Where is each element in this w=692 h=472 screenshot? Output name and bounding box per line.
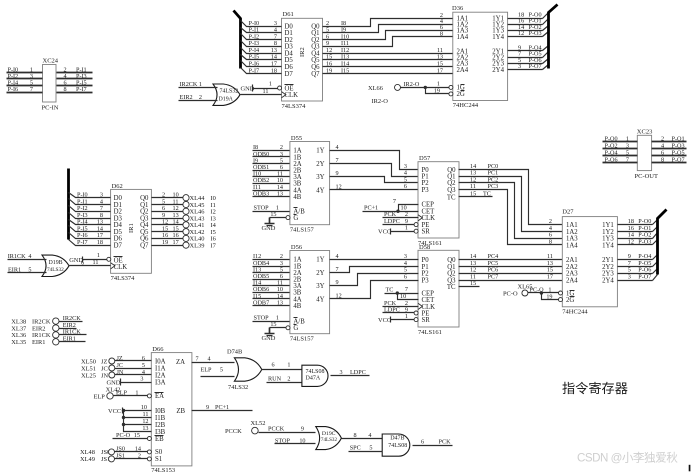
wire D36 output to P-O4 bbox=[508, 44, 549, 51]
wire IR1CK to D19B pin 4 bbox=[8, 253, 47, 260]
svg-text:74LS161: 74LS161 bbox=[418, 329, 442, 336]
svg-text:1Y: 1Y bbox=[316, 257, 324, 264]
svg-text:5: 5 bbox=[142, 362, 145, 369]
wire I12 to D56 pin 2 bbox=[253, 253, 290, 260]
wire D27 output to P-O3 (right) bbox=[618, 238, 658, 245]
svg-text:D57: D57 bbox=[419, 155, 431, 162]
terminal XL50 net JZ to D66 bbox=[81, 355, 152, 366]
svg-text:PC-O: PC-O bbox=[530, 286, 545, 293]
wire D56 3Y to D58 P2 bbox=[330, 267, 419, 287]
svg-text:PCCK: PCCK bbox=[268, 426, 285, 433]
svg-text:9: 9 bbox=[206, 404, 209, 411]
svg-text:7: 7 bbox=[196, 355, 199, 362]
svg-text:PC7: PC7 bbox=[488, 274, 499, 281]
wire STOP to D56 A/B pin 1 bbox=[253, 315, 290, 322]
svg-text:GND: GND bbox=[262, 335, 276, 342]
svg-text:74LS374: 74LS374 bbox=[111, 275, 136, 282]
terminal XL66 (IR2-O) bbox=[368, 84, 401, 105]
terminal XL46 net I2 from D62 Q2 bbox=[152, 205, 216, 216]
wire ELP to D74B pin 5 bbox=[201, 366, 235, 376]
wire LDPC to D58 PE pin 9 bbox=[383, 306, 419, 315]
wire XC23 pin 4 to P-O3 bbox=[652, 142, 687, 149]
svg-text:1: 1 bbox=[405, 225, 408, 232]
svg-text:RUN: RUN bbox=[268, 376, 282, 383]
wire P-I4 to D62 pin 13 bbox=[69, 219, 111, 226]
svg-text:10: 10 bbox=[299, 437, 305, 444]
svg-text:7: 7 bbox=[626, 157, 629, 164]
wire D61 Q3 (I11) to D36 pin 8 bbox=[323, 30, 453, 47]
wire D27 output to P-O6 (right) bbox=[618, 267, 658, 274]
svg-text:CSDN @小李独爱秋: CSDN @小李独爱秋 bbox=[577, 451, 678, 465]
svg-text:13: 13 bbox=[277, 190, 283, 197]
wire D27 output to P-O0 (right) bbox=[618, 218, 658, 225]
wire D58 TC pin 15 bbox=[459, 280, 480, 287]
svg-text:CLK: CLK bbox=[285, 92, 299, 99]
svg-text:4: 4 bbox=[661, 142, 664, 149]
svg-text:ODB7: ODB7 bbox=[253, 299, 269, 306]
or-gate D19A 74LS32 bbox=[213, 84, 240, 105]
svg-text:D66: D66 bbox=[152, 346, 164, 353]
wire D55 1Y to D57 P0 bbox=[330, 144, 419, 170]
svg-text:11: 11 bbox=[143, 411, 149, 418]
wire D47A output pin 3 net LDPC bbox=[331, 369, 370, 376]
wire D58 Q3 net PC7 to D27 pin 17 bbox=[459, 274, 563, 281]
svg-text:3: 3 bbox=[628, 274, 631, 281]
svg-text:P-O7: P-O7 bbox=[672, 157, 685, 164]
svg-text:JS0: JS0 bbox=[116, 445, 125, 452]
wire XC24 pin 8 to P-I7 bbox=[57, 86, 93, 93]
svg-text:7: 7 bbox=[336, 266, 339, 273]
svg-text:JZ: JZ bbox=[117, 355, 123, 362]
terminal XL38 net IR2CK bbox=[11, 315, 82, 326]
svg-text:EIR2: EIR2 bbox=[180, 94, 193, 101]
svg-text:7: 7 bbox=[393, 198, 396, 205]
svg-text:5: 5 bbox=[28, 266, 31, 273]
svg-text:1: 1 bbox=[97, 252, 100, 259]
svg-text:PC-O: PC-O bbox=[503, 291, 518, 298]
svg-text:74LS374: 74LS374 bbox=[282, 103, 307, 110]
svg-text:P-O3: P-O3 bbox=[638, 238, 651, 245]
wire XC23 pin 2 to P-O1 bbox=[652, 135, 687, 142]
svg-text:P3: P3 bbox=[422, 187, 430, 194]
power port VCC to D66 I0B..I3B bbox=[108, 404, 152, 432]
svg-text:4: 4 bbox=[336, 253, 339, 260]
svg-text:4Y: 4Y bbox=[316, 296, 324, 303]
wire D36 output to P-O7 bbox=[508, 63, 549, 70]
svg-text:P-O6: P-O6 bbox=[605, 157, 618, 164]
svg-text:LDPC: LDPC bbox=[384, 218, 400, 225]
terminal XL25 net JN to D66 bbox=[81, 369, 152, 380]
svg-text:1: 1 bbox=[437, 81, 440, 88]
svg-text:EA: EA bbox=[155, 393, 164, 400]
wire I13 to D56 pin 5 bbox=[253, 266, 290, 273]
power port GND at D66 I3A pin 3 bbox=[107, 375, 152, 386]
svg-text:Q7: Q7 bbox=[140, 242, 149, 249]
svg-text:14: 14 bbox=[135, 445, 141, 452]
svg-text:8: 8 bbox=[354, 432, 357, 439]
svg-text:12: 12 bbox=[336, 183, 342, 190]
IC D36 74HC244 bbox=[452, 5, 508, 109]
wire ODB0 to D55 pin 3 bbox=[253, 151, 290, 158]
wire IR2-O to D36 1G/2G pins 1,19 bbox=[401, 81, 453, 96]
svg-text:11: 11 bbox=[263, 88, 269, 95]
svg-text:D62: D62 bbox=[112, 183, 123, 190]
caption 指令寄存器 bbox=[562, 380, 628, 396]
svg-text:I7: I7 bbox=[211, 242, 217, 249]
svg-text:P-O7: P-O7 bbox=[638, 274, 651, 281]
svg-text:19: 19 bbox=[434, 88, 440, 95]
svg-text:9: 9 bbox=[336, 170, 339, 177]
wire D56 2Y to D58 P1 bbox=[330, 260, 419, 273]
svg-text:VCC: VCC bbox=[378, 317, 391, 324]
svg-text:IR2CK: IR2CK bbox=[180, 81, 198, 88]
svg-text:18: 18 bbox=[97, 239, 103, 246]
svg-text:8: 8 bbox=[549, 238, 552, 245]
svg-text:XL52: XL52 bbox=[251, 420, 266, 427]
terminal XL40 net I6 from D62 Q6 bbox=[152, 232, 216, 243]
svg-text:8: 8 bbox=[661, 157, 664, 164]
wire XC24 pin 4 to P-I3 bbox=[57, 73, 93, 80]
svg-text:指令寄存器: 指令寄存器 bbox=[562, 380, 628, 396]
wire XC24 pin 2 to P-I1 bbox=[57, 66, 93, 73]
svg-text:1Y4: 1Y4 bbox=[602, 242, 614, 249]
svg-text:2Y4: 2Y4 bbox=[602, 277, 614, 284]
svg-text:74LS32: 74LS32 bbox=[228, 384, 248, 391]
svg-text:2A4: 2A4 bbox=[566, 277, 578, 284]
wire D27 output to P-O5 (right) bbox=[618, 260, 658, 267]
power port VCC at D58 SR pin 1 bbox=[378, 313, 418, 324]
IC D57 74LS161 bbox=[418, 155, 459, 247]
terminal XL36 net IR1CK bbox=[11, 329, 86, 340]
svg-text:1: 1 bbox=[626, 135, 629, 142]
wire PC-O to D66 EB pin 15 bbox=[113, 432, 152, 441]
svg-text:PC+1: PC+1 bbox=[364, 205, 378, 212]
svg-text:74HC244: 74HC244 bbox=[453, 102, 479, 109]
wire P-I6 to D61 pin 17 bbox=[241, 60, 282, 67]
bus entry to D62 inputs bbox=[67, 169, 70, 240]
svg-text:P-O2: P-O2 bbox=[605, 142, 618, 149]
wire P-I4 to D61 pin 13 bbox=[241, 47, 282, 54]
svg-text:3: 3 bbox=[140, 375, 143, 382]
wire ODB5 to D56 pin 6 bbox=[253, 273, 290, 280]
power port GND at D61 OE pin 1 bbox=[241, 81, 282, 93]
IC D66 74LS153 bbox=[151, 346, 192, 472]
svg-text:15: 15 bbox=[270, 211, 276, 218]
IC D56 74LS157 bbox=[290, 244, 330, 343]
svg-text:D61: D61 bbox=[283, 11, 294, 18]
svg-text:STOP: STOP bbox=[275, 437, 291, 444]
wire P-I2 to D61 pin 7 bbox=[241, 33, 282, 40]
wire P-O6 to XC23 pin 7 bbox=[603, 157, 638, 164]
corner mark bbox=[689, 465, 691, 472]
svg-text:P-I6: P-I6 bbox=[8, 86, 19, 93]
svg-text:G: G bbox=[293, 325, 298, 332]
wire D58 Q2 net PC6 to D27 pin 15 bbox=[459, 267, 563, 274]
wire D19C output pin 8 to D47B pin 4 bbox=[342, 432, 383, 439]
wire I14 to D56 pin 11 bbox=[253, 280, 290, 287]
svg-text:I3B: I3B bbox=[155, 429, 166, 436]
svg-text:6: 6 bbox=[421, 438, 424, 445]
svg-text:74LS32: 74LS32 bbox=[220, 88, 239, 94]
wire PCCK to D19C pin 9 bbox=[259, 426, 316, 433]
svg-text:JC: JC bbox=[117, 362, 124, 369]
wire I8 to D55 pin 2 bbox=[253, 144, 290, 151]
wire ODB1 to D55 pin 6 bbox=[253, 164, 290, 171]
terminal XL43 net I3 from D62 Q3 bbox=[152, 212, 216, 223]
wire P-I2 to D62 pin 7 bbox=[69, 205, 111, 212]
wire D58 Q1 net PC5 to D27 pin 13 bbox=[459, 260, 563, 267]
or-gate D74B 74LS32 bbox=[227, 348, 262, 391]
bus from D36 outputs bbox=[549, 5, 558, 69]
svg-text:SPC: SPC bbox=[350, 445, 361, 452]
svg-text:9: 9 bbox=[336, 279, 339, 286]
wire D61 Q2 (I10) to D36 pin 6 bbox=[323, 24, 453, 40]
terminal XL65 (PC-O) bbox=[503, 283, 532, 297]
svg-text:P-I7: P-I7 bbox=[76, 86, 87, 93]
wire P-O4 to XC23 pin 5 bbox=[603, 150, 638, 157]
svg-text:IR2-O: IR2-O bbox=[372, 98, 389, 105]
wire D27 output to P-O1 (right) bbox=[618, 225, 658, 232]
wire P-I5 to D61 pin 14 bbox=[241, 54, 282, 61]
svg-text:10: 10 bbox=[141, 404, 147, 411]
svg-text:Q3: Q3 bbox=[447, 187, 456, 194]
svg-text:1: 1 bbox=[135, 389, 138, 396]
svg-text:3: 3 bbox=[340, 369, 343, 376]
svg-text:ELP: ELP bbox=[94, 394, 106, 401]
svg-text:D19A: D19A bbox=[219, 96, 234, 102]
svg-text:4B: 4B bbox=[293, 194, 301, 201]
terminal XL49 net JS1 to D66 S1 pin 2 bbox=[80, 452, 151, 463]
svg-text:2: 2 bbox=[138, 452, 141, 459]
wire D56 4Y to D58 P3 bbox=[330, 274, 419, 300]
wire P-O2 to XC23 pin 3 bbox=[603, 142, 638, 149]
wire D19A output pin 3 to D61 CLK pin 11 bbox=[241, 88, 282, 95]
wire D61 Q7 (I15) to D36 pin 17 bbox=[323, 67, 453, 74]
svg-text:P3: P3 bbox=[422, 277, 430, 284]
svg-text:I1B: I1B bbox=[155, 415, 166, 422]
svg-text:74HC244: 74HC244 bbox=[562, 308, 588, 315]
svg-text:XC23: XC23 bbox=[637, 128, 653, 135]
svg-text:6: 6 bbox=[142, 355, 145, 362]
wire XC23 pin 6 to P-O5 bbox=[652, 150, 687, 157]
svg-text:TC: TC bbox=[447, 284, 456, 291]
svg-text:7: 7 bbox=[30, 86, 33, 93]
svg-text:EIR1: EIR1 bbox=[63, 336, 76, 343]
svg-text:XL25: XL25 bbox=[81, 372, 96, 379]
svg-text:8: 8 bbox=[64, 86, 67, 93]
svg-text:4: 4 bbox=[368, 432, 371, 439]
svg-text:IR1: IR1 bbox=[128, 223, 135, 233]
svg-text:12: 12 bbox=[336, 292, 342, 299]
svg-text:18: 18 bbox=[271, 67, 277, 74]
wire D27 output to P-O2 (right) bbox=[618, 232, 658, 239]
svg-text:6: 6 bbox=[81, 259, 84, 266]
wire D66 ZB pin 9 net PC+1 bbox=[192, 404, 253, 411]
wire D55 3Y to D57 P2 bbox=[330, 170, 419, 183]
wire D57 Q3 net PC3 to D27 pin 8 bbox=[459, 183, 563, 246]
wire P-I7 to D62 pin 18 bbox=[69, 239, 111, 246]
svg-text:4: 4 bbox=[336, 144, 339, 151]
svg-text:19: 19 bbox=[326, 67, 332, 74]
svg-text:P-I7: P-I7 bbox=[249, 67, 260, 74]
wire D36 output to P-O5 bbox=[508, 51, 549, 58]
svg-text:D27: D27 bbox=[562, 209, 574, 216]
power port VCC at D57 SR pin 1 bbox=[378, 225, 418, 236]
svg-text:2Y: 2Y bbox=[316, 270, 324, 277]
bus entry to D61 inputs bbox=[234, 11, 241, 69]
svg-text:TC: TC bbox=[447, 194, 456, 201]
svg-text:2G: 2G bbox=[457, 91, 465, 98]
svg-text:I3A: I3A bbox=[155, 379, 166, 386]
svg-text:6: 6 bbox=[404, 183, 407, 190]
wire D47B output pin 6 net PCK bbox=[413, 438, 453, 445]
svg-text:11: 11 bbox=[470, 274, 476, 281]
svg-text:74LS153: 74LS153 bbox=[151, 467, 175, 472]
svg-text:11: 11 bbox=[93, 259, 99, 266]
svg-text:17: 17 bbox=[547, 274, 553, 281]
svg-text:2: 2 bbox=[661, 135, 664, 142]
svg-text:6: 6 bbox=[404, 274, 407, 281]
svg-text:JZ: JZ bbox=[101, 358, 107, 365]
svg-text:D47A: D47A bbox=[306, 376, 321, 382]
svg-text:1A4: 1A4 bbox=[566, 242, 578, 249]
svg-text:XL35: XL35 bbox=[11, 339, 26, 346]
svg-text:1A4: 1A4 bbox=[457, 34, 469, 41]
wire D55 4Y to D57 P3 bbox=[330, 183, 419, 191]
wire P-I0 to D62 pin 3 bbox=[69, 192, 111, 199]
terminal XL48 net JS0 to D66 S0 pin 14 bbox=[80, 445, 151, 456]
terminal XL51 net JC to D66 bbox=[81, 362, 152, 373]
wire D61 Q6 (I14) to D36 pin 15 bbox=[323, 60, 453, 67]
svg-text:5: 5 bbox=[220, 366, 223, 373]
svg-text:GND: GND bbox=[262, 225, 276, 232]
wire I15 to D56 pin 14 bbox=[253, 293, 290, 300]
wire ODB6 to D56 pin 10 bbox=[253, 286, 290, 293]
terminal XL42 net ELP to D66 EA pin 1 bbox=[94, 386, 152, 400]
svg-text:IR1CK: IR1CK bbox=[8, 253, 26, 260]
svg-text:SR: SR bbox=[422, 317, 431, 324]
svg-text:JN: JN bbox=[117, 369, 124, 376]
connector XC24 PC-IN box bbox=[42, 58, 59, 112]
svg-text:74LS157: 74LS157 bbox=[290, 336, 315, 343]
svg-text:XL66: XL66 bbox=[368, 85, 383, 92]
wire EIR2 to D19A pin 2 bbox=[179, 94, 218, 101]
wire D57 Q1 net PC1 to D27 pin 4 bbox=[459, 170, 563, 232]
svg-text:5: 5 bbox=[369, 445, 372, 452]
terminal XL42 net I5 from D62 Q5 bbox=[152, 225, 216, 236]
svg-text:5: 5 bbox=[626, 150, 629, 157]
svg-text:I2B: I2B bbox=[155, 422, 166, 429]
svg-text:2G: 2G bbox=[566, 297, 574, 304]
svg-text:1: 1 bbox=[287, 361, 290, 368]
svg-text:PC-OUT: PC-OUT bbox=[635, 173, 659, 180]
svg-text:2Y: 2Y bbox=[316, 161, 324, 168]
IC D62 74LS374 IR1 bbox=[111, 183, 152, 282]
wire P-I6 to D62 pin 17 bbox=[69, 232, 111, 239]
wire P-I3 to D62 pin 8 bbox=[69, 212, 111, 219]
svg-text:3Y: 3Y bbox=[316, 174, 324, 181]
svg-text:P-O3: P-O3 bbox=[672, 142, 685, 149]
svg-text:P-O3: P-O3 bbox=[529, 30, 542, 37]
wire D36 output to P-O0 bbox=[508, 11, 549, 18]
wire ODB2 to D55 pin 10 bbox=[253, 177, 290, 184]
wire I9 to D55 pin 5 bbox=[253, 157, 290, 164]
wire P-O0 to XC23 pin 1 bbox=[603, 135, 638, 142]
wire P-I2 to XC24 pin 3 bbox=[7, 73, 43, 80]
wire D36 output to P-O6 bbox=[508, 57, 549, 64]
svg-text:I1A: I1A bbox=[155, 365, 166, 372]
svg-text:15: 15 bbox=[134, 432, 140, 439]
svg-text:IR2: IR2 bbox=[299, 47, 306, 57]
svg-text:EIR1: EIR1 bbox=[32, 339, 46, 346]
svg-text:4: 4 bbox=[208, 355, 211, 362]
terminal XL35 net EIR1 bbox=[11, 336, 85, 347]
IC D55 74LS157 bbox=[290, 135, 330, 234]
svg-text:I0B: I0B bbox=[155, 408, 166, 415]
svg-text:JN: JN bbox=[101, 372, 108, 379]
svg-text:13: 13 bbox=[277, 299, 283, 306]
svg-text:3: 3 bbox=[626, 142, 629, 149]
svg-text:74LS32: 74LS32 bbox=[321, 437, 338, 443]
svg-text:12: 12 bbox=[142, 418, 148, 425]
bus from D27 outputs bbox=[658, 210, 667, 275]
svg-text:1Y: 1Y bbox=[316, 148, 324, 155]
svg-text:PC-IN: PC-IN bbox=[42, 105, 59, 112]
svg-text:D47B: D47B bbox=[390, 436, 404, 442]
svg-text:6: 6 bbox=[272, 361, 275, 368]
wire P-I0 to XC24 pin 1 bbox=[7, 66, 43, 73]
wire P-I4 to XC24 pin 5 bbox=[7, 79, 43, 86]
wire D56 1Y to D58 P0 bbox=[330, 253, 419, 260]
svg-text:D58: D58 bbox=[419, 244, 430, 251]
wire D58 Q0 net PC4 to D27 pin 11 bbox=[459, 253, 563, 260]
svg-text:P-I7: P-I7 bbox=[77, 239, 88, 246]
svg-text:ZB: ZB bbox=[176, 408, 185, 415]
wire P-I7 to D61 pin 18 bbox=[241, 67, 282, 74]
svg-text:I0A: I0A bbox=[155, 358, 166, 365]
svg-text:13: 13 bbox=[142, 425, 148, 432]
wire D61 Q1 (I9) to D36 pin 4 bbox=[323, 18, 453, 34]
wire ODB7 to D56 pin 13 bbox=[253, 299, 290, 306]
svg-text:D7: D7 bbox=[285, 71, 294, 78]
svg-text:7: 7 bbox=[336, 157, 339, 164]
wire PC-O to D27 1G/2G pins 1,19 bbox=[528, 286, 563, 301]
svg-text:74LS08: 74LS08 bbox=[388, 443, 407, 449]
svg-text:12: 12 bbox=[628, 238, 634, 245]
svg-text:PCK: PCK bbox=[439, 438, 452, 445]
svg-text:15: 15 bbox=[470, 190, 476, 197]
svg-text:4Y: 4Y bbox=[316, 187, 324, 194]
wire D36 output to P-O1 bbox=[508, 18, 549, 25]
connector XC23 PC-OUT box bbox=[635, 128, 659, 180]
svg-text:D74B: D74B bbox=[227, 348, 242, 355]
wire PCK to D58 CLK pin 2 bbox=[383, 300, 419, 307]
svg-text:ODB3: ODB3 bbox=[253, 190, 269, 197]
svg-text:D7: D7 bbox=[114, 242, 123, 249]
svg-text:STOP: STOP bbox=[254, 315, 270, 322]
svg-text:P-O0: P-O0 bbox=[605, 135, 618, 142]
wire D55 2Y to D57 P1 bbox=[330, 157, 419, 177]
svg-text:I2A: I2A bbox=[155, 372, 166, 379]
svg-text:D19B: D19B bbox=[49, 260, 63, 266]
svg-text:XL49: XL49 bbox=[80, 456, 95, 463]
svg-text:IR2-O: IR2-O bbox=[404, 81, 420, 88]
svg-text:11: 11 bbox=[470, 183, 476, 190]
wire ODB4 to D56 pin 3 bbox=[253, 260, 290, 267]
wire D36 output to P-O3 bbox=[508, 30, 549, 37]
svg-text:74LS08: 74LS08 bbox=[306, 369, 325, 375]
or-gate D19B 74LS32 bbox=[42, 255, 69, 276]
